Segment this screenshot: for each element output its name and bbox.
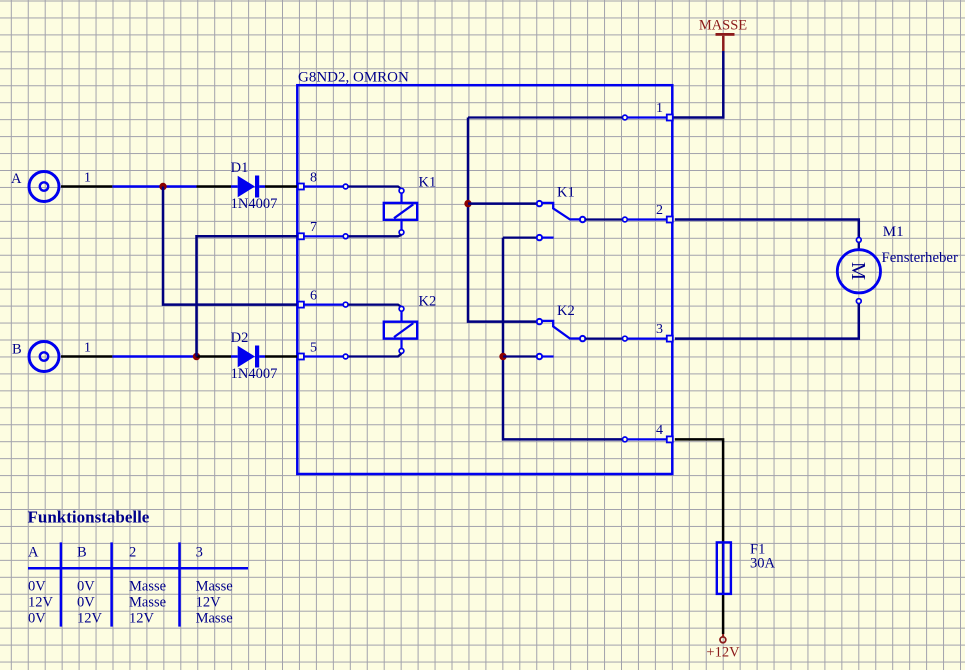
svg-text:2: 2 xyxy=(129,545,136,561)
svg-text:3: 3 xyxy=(196,545,203,561)
svg-text:D2: D2 xyxy=(231,330,249,346)
svg-text:6: 6 xyxy=(310,289,317,304)
supply +12V xyxy=(706,634,740,661)
wire junction to K1 common xyxy=(468,202,537,205)
connector B xyxy=(12,342,59,372)
pin 5 pad xyxy=(298,340,317,359)
svg-text:G8ND2, OMRON: G8ND2, OMRON xyxy=(298,70,409,86)
svg-text:12V: 12V xyxy=(28,594,54,610)
wire motor to pin 3 xyxy=(675,304,859,339)
wire pin 1 row xyxy=(468,115,666,120)
svg-text:4: 4 xyxy=(656,423,663,438)
svg-text:K2: K2 xyxy=(557,303,575,319)
diode D2 xyxy=(197,330,298,382)
table header row xyxy=(28,545,203,561)
svg-text:0V: 0V xyxy=(28,610,46,626)
svg-text:12V: 12V xyxy=(196,594,222,610)
table header rule xyxy=(28,567,248,570)
svg-text:Masse: Masse xyxy=(129,579,166,595)
svg-text:8: 8 xyxy=(310,171,317,186)
svg-text:1N4007: 1N4007 xyxy=(231,196,278,212)
relay coil K1 xyxy=(384,175,436,230)
wire common bus pin 1 to K2 common xyxy=(468,118,537,322)
table row 3 xyxy=(28,610,233,626)
connector A xyxy=(11,171,59,202)
svg-text:5: 5 xyxy=(310,340,317,355)
junction K2 lower contact xyxy=(499,353,506,360)
wire MASSE to pin 1 xyxy=(672,51,723,118)
pin 2 pad xyxy=(656,203,673,223)
pin 6 pad xyxy=(298,289,317,308)
relay contact K2 xyxy=(537,303,586,341)
pin 7 pad xyxy=(298,220,317,239)
svg-text:B: B xyxy=(77,545,87,561)
wire net B xyxy=(112,355,196,358)
svg-text:0V: 0V xyxy=(77,594,95,610)
pin 1 pad xyxy=(656,101,673,121)
relay module box G8ND2 xyxy=(297,85,672,474)
svg-text:3: 3 xyxy=(656,322,663,337)
svg-text:+12V: +12V xyxy=(706,645,740,661)
pin 4 pad xyxy=(656,423,673,442)
wire K1 coil to pin 7 xyxy=(304,230,404,239)
svg-text:1N4007: 1N4007 xyxy=(231,366,278,382)
svg-text:1: 1 xyxy=(84,341,91,356)
pin 8 pad xyxy=(298,171,317,190)
power symbol MASSE xyxy=(699,18,747,52)
wire net A xyxy=(112,185,196,188)
svg-text:1: 1 xyxy=(84,171,91,186)
wire junction A to pin 6 xyxy=(163,187,297,305)
svg-text:M: M xyxy=(847,262,869,280)
wire K1 output to pin 2 xyxy=(586,217,667,222)
pin 3 pad xyxy=(656,322,673,342)
svg-text:Masse: Masse xyxy=(196,579,233,595)
pin 1 of connector B xyxy=(61,341,112,357)
diode D1 xyxy=(197,160,298,212)
svg-text:K1: K1 xyxy=(419,175,437,191)
pin 1 of connector A xyxy=(61,171,112,187)
wire K2 output to pin 3 xyxy=(586,336,667,341)
svg-text:A: A xyxy=(11,171,22,187)
svg-text:30A: 30A xyxy=(750,556,776,572)
svg-text:12V: 12V xyxy=(129,610,155,626)
svg-text:0V: 0V xyxy=(77,579,95,595)
wire pin 4 to fuse xyxy=(675,439,723,634)
wire NO bus to pin 4 xyxy=(503,238,622,440)
svg-text:Funktionstabelle: Funktionstabelle xyxy=(28,508,150,527)
fuse F1 xyxy=(717,542,776,594)
svg-text:K2: K2 xyxy=(419,293,437,309)
wire pin 8 to relay K1 coil xyxy=(304,184,404,193)
svg-text:Masse: Masse xyxy=(129,594,166,610)
table row 2 xyxy=(28,594,221,610)
svg-text:MASSE: MASSE xyxy=(699,18,747,34)
junction K1 common xyxy=(464,200,471,207)
wire junction B to pin 7 xyxy=(197,236,298,356)
svg-text:Masse: Masse xyxy=(196,610,233,626)
svg-text:7: 7 xyxy=(310,220,317,235)
table column separators xyxy=(61,542,180,626)
svg-text:B: B xyxy=(12,342,22,358)
K1 lower contact xyxy=(503,235,554,240)
svg-text:12V: 12V xyxy=(77,610,103,626)
wire pin 2 to motor M1 xyxy=(675,220,859,238)
motor M1 xyxy=(837,224,958,304)
svg-text:K1: K1 xyxy=(557,185,575,201)
relay contact K1 xyxy=(537,185,586,223)
svg-text:0V: 0V xyxy=(28,579,46,595)
relay coil K2 xyxy=(384,293,436,348)
junction on net A xyxy=(159,183,166,190)
svg-text:2: 2 xyxy=(656,203,663,218)
svg-text:D1: D1 xyxy=(231,160,249,176)
junction on net B xyxy=(193,353,200,360)
svg-text:A: A xyxy=(28,545,39,561)
svg-text:M1: M1 xyxy=(883,224,904,240)
wire K2 coil to pin 5 xyxy=(304,349,404,359)
svg-text:1: 1 xyxy=(656,101,663,116)
table row 1 xyxy=(28,579,233,595)
wire pin 6 to relay K2 coil xyxy=(304,302,404,311)
pin 4 row xyxy=(623,437,667,442)
svg-text:Fensterheber: Fensterheber xyxy=(882,250,958,266)
K2 lower contact xyxy=(503,354,554,359)
